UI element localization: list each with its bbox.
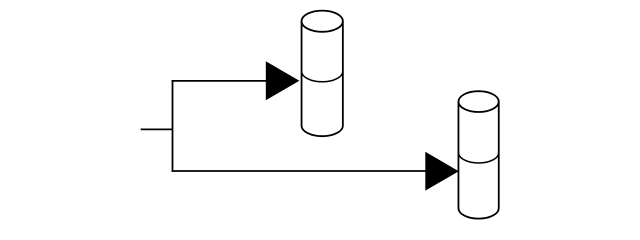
wire: vertical branch <box>172 80 174 172</box>
cylinder: top data store <box>302 11 343 137</box>
cylinder: bottom data store <box>458 91 498 218</box>
wire: input stub <box>141 128 173 130</box>
wire: to bottom store <box>172 170 426 172</box>
arrowhead: top <box>266 61 300 100</box>
wire: to top store <box>172 80 267 82</box>
arrowhead: bottom <box>425 152 459 191</box>
